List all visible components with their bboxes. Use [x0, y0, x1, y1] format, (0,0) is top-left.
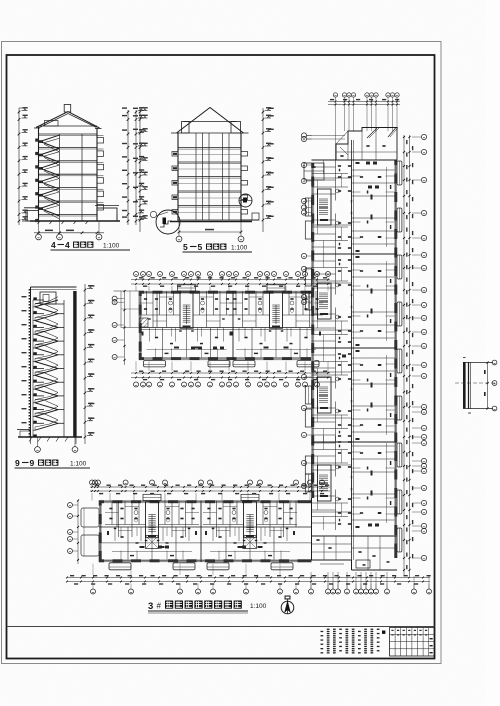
spine top-left entry [304, 163, 324, 180]
bottom wing bottom grid bubbles [91, 584, 432, 595]
bottom wing middle corridor wall [99, 527, 312, 543]
section 4-4 grid bubbles [36, 221, 102, 240]
section 5-5 floor slabs [178, 148, 241, 222]
section 5-5 window mid-rails [178, 155, 241, 213]
bottom wing balconies [109, 563, 293, 570]
spine top stepped outline [312, 128, 399, 161]
section 4-4 stair partition walls [60, 134, 83, 221]
upper wing middle corridor wall [139, 328, 312, 330]
spine top grid bubbles [328, 93, 400, 160]
section 5-5 right dimension chain [262, 107, 274, 232]
upper wing unit labels [191, 347, 224, 350]
spine unit at y=207 [305, 160, 394, 254]
section 5-5 facade sill marks [172, 152, 248, 215]
section 5-5 detail circle lower-left [150, 210, 180, 234]
upper wing left grid bubbles [112, 296, 124, 359]
upper wing left dimension chain [124, 290, 126, 365]
title block vertical text columns [321, 629, 380, 654]
section 9-9 shaft walls [31, 287, 77, 437]
section 4-4 ground line [30, 221, 120, 224]
upper wing bottom grid bubbles [134, 382, 320, 387]
section 5-5 bottom dimension line [176, 222, 244, 242]
spine left grid bubbles [301, 133, 345, 489]
bottom wing top dimension rows [90, 485, 330, 501]
section 5-5 detail circle right [239, 194, 252, 207]
apartment unit at x=186.5 [140, 285, 234, 358]
section 5-5 ground line [170, 213, 259, 222]
north arrow [281, 596, 294, 615]
section 4-4 left dimension chain [18, 107, 28, 225]
section 9-9 right dimension chain [84, 284, 95, 444]
plan caption [148, 601, 267, 614]
spine bottom rooms filler [312, 536, 395, 570]
section 5-5 left dimension chain [133, 107, 148, 232]
bottom wing left grid bubbles [68, 503, 79, 554]
section 5-5 window mullions [196, 133, 229, 220]
spine right grid bubbles [412, 134, 427, 560]
right edge detail fragment [455, 358, 497, 414]
upper wing bottom dimension rows [131, 361, 330, 380]
bottom wing party wall [117, 501, 296, 563]
spine right dimension chains [403, 135, 413, 576]
upper wing exterior walls [139, 291, 312, 361]
bottom wing left balconies [81, 508, 99, 556]
section 4-4 left porch [22, 208, 40, 221]
upper wing party wall [157, 291, 233, 360]
section 9-9 stair flights [33, 297, 64, 430]
section 9-9 label [15, 458, 91, 468]
section 9-9 penthouse [40, 292, 64, 304]
section 5-5 building outline [178, 133, 241, 222]
title block table [390, 628, 435, 657]
title block stamp dot [382, 631, 385, 634]
section 9-9 left dotted dimension [22, 289, 31, 438]
section 4-4 floor slabs [39, 134, 98, 216]
section 4-4 bottom dimension line [34, 230, 104, 235]
spine bottom edge steps [312, 498, 398, 570]
spine unit at y=395 [305, 348, 394, 442]
spine room labels [342, 162, 379, 527]
section 5-5 label [183, 242, 253, 252]
section 4-4 right dimension chain [122, 107, 144, 225]
section 4-4 right facade balconies [97, 136, 104, 210]
bottom wing vertical drop lines [93, 564, 429, 589]
upper wing top grid bubbles [134, 272, 331, 277]
spine party walls [312, 160, 398, 536]
section 4-4 stair flights [39, 135, 59, 218]
spine balconies right side [397, 161, 402, 552]
upper wing corner hatch [140, 318, 149, 327]
apartment unit at x=276 [229, 285, 323, 358]
section 4-4 left wall sill marks [35, 139, 38, 223]
section 5-5 roof [171, 108, 249, 134]
spine middle corridor wall [352, 140, 354, 560]
section 9-9 floor slab stubs [33, 297, 44, 437]
spine unit at y=483 [305, 436, 394, 530]
bottom wing bottom dimension rows [66, 575, 431, 585]
upper wing left porch [114, 291, 140, 328]
section 4-4 roof [34, 105, 102, 129]
spine exterior walls [311, 160, 397, 558]
upper wing balconies [144, 361, 320, 367]
spine bays left side [305, 221, 311, 474]
bottom wing top grid bubbles [90, 480, 325, 485]
section 4-4 building outline [39, 126, 98, 221]
bottom wing elevator shafts [146, 536, 257, 549]
apartment unit at x=250 [203, 494, 297, 559]
section 4-4 label [51, 240, 131, 250]
spine unit at y=301 [305, 254, 394, 348]
section 9-9 ground and footing [17, 430, 82, 445]
bottom wing left dimension chain [77, 500, 79, 565]
apartment unit at x=152 [105, 494, 199, 559]
section 9-9 grid bubbles [35, 437, 78, 452]
bottom wing unit labels [158, 546, 246, 549]
section 4-4 right annex [95, 206, 119, 222]
bottom wing exterior walls [99, 500, 312, 562]
upper wing top dimension rows [131, 277, 330, 291]
